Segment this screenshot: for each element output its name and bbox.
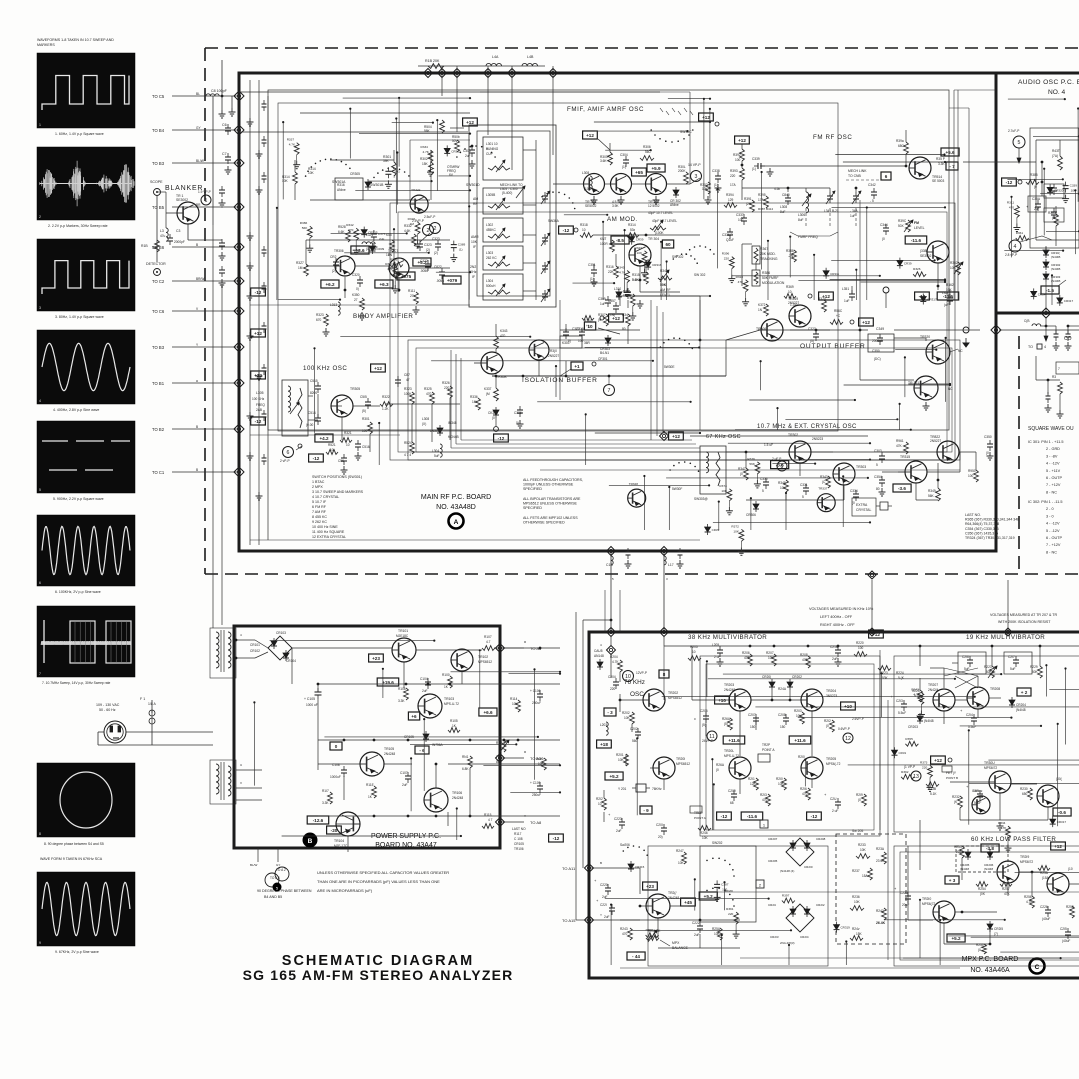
svg-text:L310: L310 bbox=[614, 287, 621, 291]
svg-text:+5.2: +5.2 bbox=[704, 894, 714, 899]
resistor R372 buffer bbox=[758, 303, 768, 316]
svg-text:-20: -20 bbox=[331, 828, 338, 833]
svg-text:10K: 10K bbox=[702, 836, 709, 840]
svg-text:(1): (1) bbox=[714, 183, 718, 187]
label FMRF FREQ bbox=[790, 232, 838, 239]
svg-text:TUNING: TUNING bbox=[486, 147, 499, 151]
svg-text:7 - +12V: 7 - +12V bbox=[1046, 483, 1061, 487]
svg-text:8 455 KC: 8 455 KC bbox=[312, 515, 327, 519]
svg-text:R316: R316 bbox=[606, 265, 614, 269]
svg-text:R385: R385 bbox=[1048, 211, 1056, 215]
svg-text:TR207: TR207 bbox=[928, 683, 938, 687]
capacitor C107 2uF psu bbox=[400, 771, 411, 787]
svg-text:CR313: CR313 bbox=[451, 149, 461, 153]
svg-text:- 3: - 3 bbox=[607, 710, 613, 715]
ground bus bbox=[256, 372, 263, 380]
resistor R256 4.7K bbox=[1024, 895, 1034, 908]
svg-text:6: 6 bbox=[39, 581, 41, 585]
svg-text:4: 4 bbox=[240, 633, 242, 637]
wire fmif h bbox=[595, 130, 689, 132]
wire gap vertical 2 bbox=[957, 90, 959, 300]
svg-text:(C: (C bbox=[822, 480, 826, 484]
svg-text:R: R bbox=[524, 750, 527, 754]
svg-text:-11.6: -11.6 bbox=[911, 238, 922, 243]
capacitor drop C bbox=[626, 548, 683, 559]
resistor R25U 10K bbox=[712, 927, 722, 940]
filler mainUL component bbox=[361, 227, 378, 238]
box 1 sq bbox=[760, 820, 768, 828]
svg-text:(5): (5) bbox=[810, 339, 814, 343]
voltage box +11.6 L bbox=[723, 736, 745, 744]
capacitor C303 xtal bbox=[874, 449, 885, 467]
svg-text:L305B: L305B bbox=[486, 193, 495, 197]
wire psu v bbox=[533, 668, 535, 779]
voltage box +12 fmrf bbox=[735, 136, 750, 144]
svg-text:C339: C339 bbox=[1070, 184, 1078, 188]
svg-text:4 - -12V: 4 - -12V bbox=[1046, 462, 1060, 466]
svg-text:39K: 39K bbox=[383, 159, 390, 163]
svg-text:SW 302: SW 302 bbox=[694, 273, 706, 277]
IF can L305B bbox=[483, 188, 523, 214]
svg-text:+6.2: +6.2 bbox=[325, 282, 335, 287]
label 38KHz MULTIVIBRATOR bbox=[688, 634, 767, 641]
svg-text:2.7uF-P: 2.7uF-P bbox=[1008, 129, 1019, 133]
switch dots SW30A bbox=[541, 191, 575, 223]
wire mainUL h bbox=[436, 271, 471, 273]
resistor R314 53x bbox=[626, 223, 639, 237]
svg-text:B: B bbox=[196, 425, 198, 429]
voltage box +6.6 psu bbox=[479, 708, 497, 716]
switch SW202 box bbox=[700, 841, 756, 922]
resistor R230 mpx bbox=[1020, 787, 1032, 800]
svg-text:R392: R392 bbox=[901, 770, 909, 774]
voltage box +12 bbox=[251, 329, 266, 337]
wire mpx inner box bbox=[700, 656, 880, 836]
svg-text:(0: (0 bbox=[492, 416, 495, 420]
wire fmrf v bbox=[866, 206, 868, 300]
ground bus bbox=[256, 492, 263, 500]
svg-text:+5.9: +5.9 bbox=[651, 166, 661, 171]
svg-text:MECH LINK: MECH LINK bbox=[848, 169, 867, 173]
wire mpx 38k rail bbox=[664, 645, 870, 648]
resistor R24v 15K bbox=[850, 927, 863, 940]
svg-text:BOARD NO. 43A47: BOARD NO. 43A47 bbox=[375, 842, 437, 849]
component cluster CR305 bbox=[335, 172, 371, 200]
svg-text:2uF: 2uF bbox=[402, 783, 408, 787]
svg-text:4.7K: 4.7K bbox=[1000, 826, 1007, 830]
svg-text:MPS6512: MPS6512 bbox=[676, 762, 690, 766]
wire rcentral h bbox=[735, 429, 912, 431]
filler mainUL component bbox=[385, 262, 399, 293]
resistor R246 mpx bbox=[698, 826, 711, 840]
svg-text:C: C bbox=[1035, 964, 1040, 971]
resistor R39C 50X FM LEVEL bbox=[898, 219, 925, 232]
svg-text:5: 5 bbox=[762, 489, 764, 493]
svg-text:MODULATION: MODULATION bbox=[762, 281, 785, 285]
svg-text:(30(: (30( bbox=[1056, 777, 1063, 781]
svg-text:+11.6: +11.6 bbox=[728, 738, 740, 743]
resistor R323 670 bbox=[316, 313, 330, 336]
svg-text:5.6K: 5.6K bbox=[632, 278, 639, 282]
svg-text:76 KHz: 76 KHz bbox=[624, 679, 645, 686]
svg-text:2000pF: 2000pF bbox=[174, 240, 185, 244]
wire main rail r2 bbox=[250, 304, 470, 306]
transistor TR319 buffer bbox=[788, 297, 811, 327]
svg-text:CO: CO bbox=[1064, 336, 1072, 342]
svg-text:2uF: 2uF bbox=[694, 933, 700, 937]
resistor R524 474 bbox=[404, 441, 414, 457]
svg-text:R347: R347 bbox=[738, 467, 746, 471]
svg-text:C350: C350 bbox=[872, 349, 880, 353]
svg-text:C2U: C2U bbox=[830, 797, 837, 801]
label IN348 KCN4B bbox=[448, 421, 459, 439]
svg-text:SE3002: SE3002 bbox=[176, 198, 188, 202]
svg-text:V: V bbox=[196, 307, 199, 311]
resistor R209 10K r bbox=[794, 709, 804, 724]
power supply board border bbox=[234, 626, 500, 848]
wire rcentral v bbox=[760, 360, 762, 390]
svg-text:MPS-U-72: MPS-U-72 bbox=[724, 754, 739, 758]
svg-text:R326: R326 bbox=[913, 267, 921, 271]
svg-text:R220: R220 bbox=[856, 641, 864, 645]
filler mainUL component bbox=[390, 258, 403, 267]
svg-text:C349: C349 bbox=[876, 327, 884, 331]
svg-text:R64,366(4) T5,37,318: R64,366(4) T5,37,318 bbox=[965, 522, 999, 526]
svg-text:R343: R343 bbox=[820, 475, 828, 479]
svg-text:C207: C207 bbox=[748, 713, 756, 717]
svg-text:VOLTAGES MEASURED IN KHz: VOLTAGES MEASURED IN KHz 10% bbox=[809, 607, 874, 611]
svg-text:R230: R230 bbox=[1020, 787, 1028, 791]
label 1.5V 67k bbox=[764, 443, 787, 471]
svg-text:12VP-P: 12VP-P bbox=[636, 671, 647, 675]
svg-text:6. 100KHz, 2V p-p Sine wave: 6. 100KHz, 2V p-p Sine wave bbox=[55, 590, 101, 594]
svg-text:FMRF FREQ: FMRF FREQ bbox=[798, 235, 818, 239]
label mech link cnbs bbox=[846, 169, 891, 180]
circ 4 audio bbox=[1005, 236, 1052, 257]
svg-text:MPS6I72: MPS6I72 bbox=[1020, 860, 1033, 864]
wire feed drops bbox=[442, 66, 553, 170]
svg-text:0.6VP-P: 0.6VP-P bbox=[838, 727, 850, 731]
svg-text:-12: -12 bbox=[553, 836, 560, 841]
svg-text:(0.00: (0.00 bbox=[306, 423, 313, 427]
svg-text:6: 6 bbox=[287, 450, 290, 456]
resistor R302b bbox=[700, 182, 712, 204]
diode CR203 mpx19 bbox=[908, 713, 934, 729]
svg-text:0): 0) bbox=[568, 339, 571, 343]
voltage box +12 a bbox=[463, 118, 478, 126]
capacitor C5I5 bbox=[360, 395, 371, 413]
svg-text:(33B: (33B bbox=[920, 249, 927, 253]
filler fmif component bbox=[645, 259, 662, 270]
resistor R236 10K bbox=[850, 895, 864, 910]
resistor R1B 20K top bbox=[425, 59, 444, 68]
svg-text:-12: -12 bbox=[563, 228, 570, 233]
wire main vert v4 bbox=[559, 300, 561, 400]
label FM RF OSC bbox=[813, 134, 852, 141]
resistor R950 100 bbox=[968, 469, 978, 482]
svg-text:R205: R205 bbox=[690, 645, 698, 649]
resistor RN1 6.8K bbox=[462, 755, 472, 771]
svg-text:26.4K: 26.4K bbox=[876, 921, 886, 925]
svg-text:5uF: 5uF bbox=[1010, 667, 1016, 671]
voltage box +12 bbox=[251, 371, 266, 379]
svg-text:2N5223: 2N5223 bbox=[812, 437, 823, 441]
switch SW301B wafer bbox=[370, 167, 410, 187]
wire mpxbottom h bbox=[884, 919, 1006, 921]
svg-text:TR30U: TR30U bbox=[984, 761, 995, 765]
wire mpx long top bbox=[692, 646, 729, 700]
transistor TR201 mpx bbox=[653, 757, 690, 779]
svg-text:24VP-P: 24VP-P bbox=[702, 739, 713, 743]
svg-text:R334: R334 bbox=[421, 145, 429, 149]
wire main rail r6 bbox=[250, 539, 700, 541]
svg-text:C8 100pF: C8 100pF bbox=[211, 89, 228, 93]
svg-text:-1.5: -1.5 bbox=[1046, 288, 1054, 293]
resistor R39a 68C bbox=[896, 130, 908, 154]
wire 100k block bbox=[308, 394, 460, 452]
svg-text:R323: R323 bbox=[635, 246, 643, 250]
svg-text:C7: C7 bbox=[222, 152, 227, 156]
svg-text:0: 0 bbox=[694, 717, 696, 721]
capacitor L205 2uF bbox=[712, 643, 724, 666]
dashed enclosure top bbox=[205, 47, 1079, 49]
resistor R323b bbox=[404, 387, 414, 404]
svg-text:2N5227: 2N5227 bbox=[548, 354, 559, 358]
svg-text:C87: C87 bbox=[404, 373, 410, 377]
wire left col down 1 bbox=[212, 225, 214, 625]
svg-text:5 - -12V: 5 - -12V bbox=[1046, 529, 1060, 533]
wire rcentral v bbox=[904, 356, 906, 397]
capacitor C213 mpx19 bbox=[890, 694, 907, 715]
svg-text:CR2I2: CR2I2 bbox=[816, 903, 825, 907]
svg-text:C206: C206 bbox=[700, 709, 708, 713]
wire ammod bottom bbox=[594, 254, 680, 308]
svg-text:B4-N1: B4-N1 bbox=[600, 351, 609, 355]
svg-text:2N4248: 2N4248 bbox=[452, 796, 463, 800]
wire mpxtop h bbox=[988, 759, 1079, 761]
svg-text:(7): (7) bbox=[994, 932, 998, 936]
svg-text:10K: 10K bbox=[637, 251, 643, 255]
transistor TR205 mpx2 bbox=[798, 755, 841, 779]
wire sqw circuit bbox=[1036, 356, 1064, 418]
svg-text:11 400 Hz SQUARE: 11 400 Hz SQUARE bbox=[312, 530, 345, 534]
filler fmif component bbox=[617, 266, 631, 297]
resistor R316 22K bbox=[606, 265, 618, 278]
circ 5 audio bbox=[1008, 129, 1025, 163]
svg-text:TR106: TR106 bbox=[514, 847, 524, 851]
svg-text:C 108: C 108 bbox=[514, 837, 523, 841]
IF can L305 100KHz bbox=[252, 380, 308, 436]
resistor R349 56K bbox=[928, 488, 940, 501]
svg-text:FM RF OSC: FM RF OSC bbox=[813, 134, 852, 141]
ground bus bbox=[256, 186, 263, 194]
svg-text:GY: GY bbox=[276, 863, 280, 867]
circ 10 bbox=[623, 671, 648, 682]
label 2.5VP-P birdy bbox=[404, 219, 434, 246]
svg-text:R106: R106 bbox=[398, 687, 406, 691]
svg-text:R387 B414: R387 B414 bbox=[758, 207, 773, 211]
svg-text:R374: R374 bbox=[719, 484, 727, 488]
resistor R237 15A bbox=[852, 868, 872, 880]
capacitor C3 2000pF bbox=[167, 229, 185, 245]
svg-text:0): 0) bbox=[356, 287, 359, 291]
caption 5 bbox=[53, 497, 104, 501]
wire psu v bbox=[253, 701, 255, 785]
wire sqw drop bbox=[1044, 318, 1048, 341]
voltage box +12 right bbox=[699, 113, 719, 126]
svg-text:BL/W: BL/W bbox=[250, 863, 258, 867]
note last numbers bbox=[965, 513, 1019, 540]
voltage box +3 lpf bbox=[945, 876, 959, 884]
svg-text:IC 302: PIN 1 - -11.5: IC 302: PIN 1 - -11.5 bbox=[1028, 500, 1063, 504]
svg-text:C208: C208 bbox=[778, 713, 786, 717]
note last no psu bbox=[512, 827, 526, 851]
svg-text:IF: IF bbox=[472, 275, 475, 279]
svg-text:RN1: RN1 bbox=[462, 755, 469, 759]
svg-text:R114: R114 bbox=[510, 697, 518, 701]
voltage box +12 lpf bbox=[1051, 842, 1066, 850]
svg-text:7. 10.7MHz Sweep, 14V p-: 7. 10.7MHz Sweep, 14V p-p, 30Hz Sweep ra… bbox=[42, 681, 111, 685]
label TO D4 bbox=[1028, 344, 1046, 349]
svg-text:R1B: R1B bbox=[141, 244, 148, 248]
svg-text:TR20L: TR20L bbox=[724, 749, 734, 753]
svg-text:+1: +1 bbox=[574, 364, 580, 369]
resistor R250 2K bbox=[646, 929, 661, 942]
svg-text:53x: 53x bbox=[630, 228, 636, 232]
svg-text:V: V bbox=[240, 781, 242, 785]
resistor R232 mpx bbox=[952, 795, 962, 808]
svg-text:4.6K: 4.6K bbox=[404, 229, 411, 233]
svg-text:(K: (K bbox=[954, 800, 958, 804]
svg-text:90 DEGREES PHASE BETWEEN: 90 DEGREES PHASE BETWEEN bbox=[257, 889, 312, 893]
svg-text:L341 B-21: L341 B-21 bbox=[824, 209, 839, 213]
resistor R220 100 bbox=[854, 641, 867, 656]
svg-text:C357: C357 bbox=[608, 299, 616, 303]
sw302 dots bbox=[685, 245, 714, 277]
resistor R107 4.7 bbox=[482, 635, 495, 650]
filler mainbottom component bbox=[771, 461, 789, 469]
svg-text:68: 68 bbox=[730, 801, 734, 805]
voltage box +4.2 bbox=[315, 434, 333, 442]
svg-text:WAVEFORMS 1-8 TAKEN IN 10.7 SW: WAVEFORMS 1-8 TAKEN IN 10.7 SWEEP AND bbox=[37, 38, 114, 42]
svg-text:TR204: TR204 bbox=[826, 689, 836, 693]
svg-text:CF301: CF301 bbox=[598, 357, 608, 361]
svg-text:4: 4 bbox=[1044, 345, 1046, 349]
wire mpxbottom v bbox=[723, 881, 725, 910]
resistor R526 birdy bbox=[338, 225, 350, 242]
transistor TR514 SE5003 bbox=[909, 157, 945, 183]
label AMR IF bbox=[471, 235, 479, 249]
svg-text:2N42(4: 2N42(4 bbox=[928, 688, 939, 692]
voltage box +19.6 bbox=[377, 678, 399, 686]
svg-text:C20I: C20I bbox=[656, 823, 663, 827]
filler fmif component bbox=[623, 289, 637, 320]
voltage box -12 ammod bbox=[559, 226, 578, 234]
svg-text:36R: 36R bbox=[584, 341, 591, 345]
svg-text:100R: 100R bbox=[600, 242, 608, 246]
filler mpx19 component bbox=[892, 747, 907, 758]
svg-text:+5.2: +5.2 bbox=[609, 774, 619, 779]
circled O fm bbox=[883, 287, 889, 308]
filler mainUL component bbox=[444, 145, 461, 156]
svg-text:R343: R343 bbox=[911, 688, 919, 692]
svg-text:TR20I: TR20I bbox=[676, 757, 685, 761]
shield line E bbox=[408, 340, 960, 460]
svg-text:.0056: .0056 bbox=[420, 269, 428, 273]
capacitor C309 bbox=[598, 296, 611, 307]
caption 4 bbox=[53, 408, 99, 412]
svg-text:SW301B: SW301B bbox=[370, 183, 384, 187]
capacitor C354 80 bbox=[874, 475, 886, 496]
connector TO B3 bbox=[152, 158, 244, 168]
wire mpx bl bbox=[612, 868, 740, 948]
filler mainbottom component bbox=[817, 487, 835, 512]
audio osc board border bbox=[996, 73, 1079, 313]
wire main rail r3 bbox=[250, 434, 400, 436]
wire gap vertical 1 bbox=[953, 90, 955, 300]
svg-text:C351: C351 bbox=[588, 263, 596, 267]
svg-text:R321: R321 bbox=[344, 431, 352, 435]
resistor R343 67k bbox=[820, 475, 830, 488]
svg-text:47K: 47K bbox=[1004, 892, 1011, 896]
capacitor C323 birdy bbox=[432, 237, 441, 255]
svg-text:2AB: 2AB bbox=[256, 408, 262, 412]
capacitor C206 mpx bbox=[694, 709, 709, 727]
svg-text:MPX P.C. BOARD: MPX P.C. BOARD bbox=[962, 956, 1019, 963]
resistor R369 10 bbox=[784, 285, 833, 300]
label 100KHz OSC bbox=[303, 365, 347, 372]
resistor R521 10 bbox=[326, 443, 338, 454]
svg-text:(5-400): (5-400) bbox=[502, 191, 512, 195]
voltage box +079 birdy bbox=[443, 276, 461, 284]
label SQUARE WAVE OUT bbox=[1028, 426, 1074, 432]
resistor R208 470b bbox=[800, 653, 810, 668]
wire mainbottom h bbox=[808, 459, 871, 461]
svg-text:SE3002: SE3002 bbox=[920, 254, 932, 258]
resistor R111 27 bbox=[408, 289, 418, 304]
resistor R370 bbox=[818, 297, 826, 312]
svg-text:50X: 50X bbox=[898, 224, 905, 228]
wire mpx horizontal mid bbox=[620, 919, 740, 922]
caption 3 bbox=[55, 315, 104, 319]
voltage box -12 psu bbox=[549, 834, 564, 842]
resistor R325 470 bbox=[424, 387, 434, 404]
svg-text:CR2I4: CR2I4 bbox=[800, 935, 809, 939]
svg-text:TO A11: TO A11 bbox=[562, 866, 576, 871]
svg-text:ANine: ANine bbox=[337, 188, 346, 192]
svg-text:Y: Y bbox=[600, 913, 602, 917]
badge B bbox=[303, 833, 318, 848]
IF can L301 10.7MHz bbox=[483, 137, 523, 180]
svg-text:CR202: CR202 bbox=[792, 675, 802, 679]
wire fmif v bbox=[709, 108, 711, 199]
svg-text:1K: 1K bbox=[444, 685, 449, 689]
svg-text:2.5uF-P: 2.5uF-P bbox=[424, 215, 435, 219]
svg-text:(2): (2) bbox=[434, 251, 438, 255]
wire mainUL h bbox=[359, 133, 471, 135]
svg-text:R396: R396 bbox=[722, 252, 730, 256]
wire rcentral h bbox=[908, 383, 951, 385]
svg-text:C320: C320 bbox=[352, 273, 360, 277]
capacitor C220 mpx bbox=[594, 878, 611, 899]
capacitor C515 8200 bbox=[310, 379, 321, 395]
svg-text:-8.5: -8.5 bbox=[616, 238, 624, 243]
svg-text:129: 129 bbox=[728, 198, 734, 202]
wire audio h bbox=[1046, 230, 1079, 232]
wire psu rails bbox=[255, 640, 560, 688]
svg-text:5: 5 bbox=[612, 577, 614, 581]
filler mainbottom component bbox=[747, 457, 761, 488]
